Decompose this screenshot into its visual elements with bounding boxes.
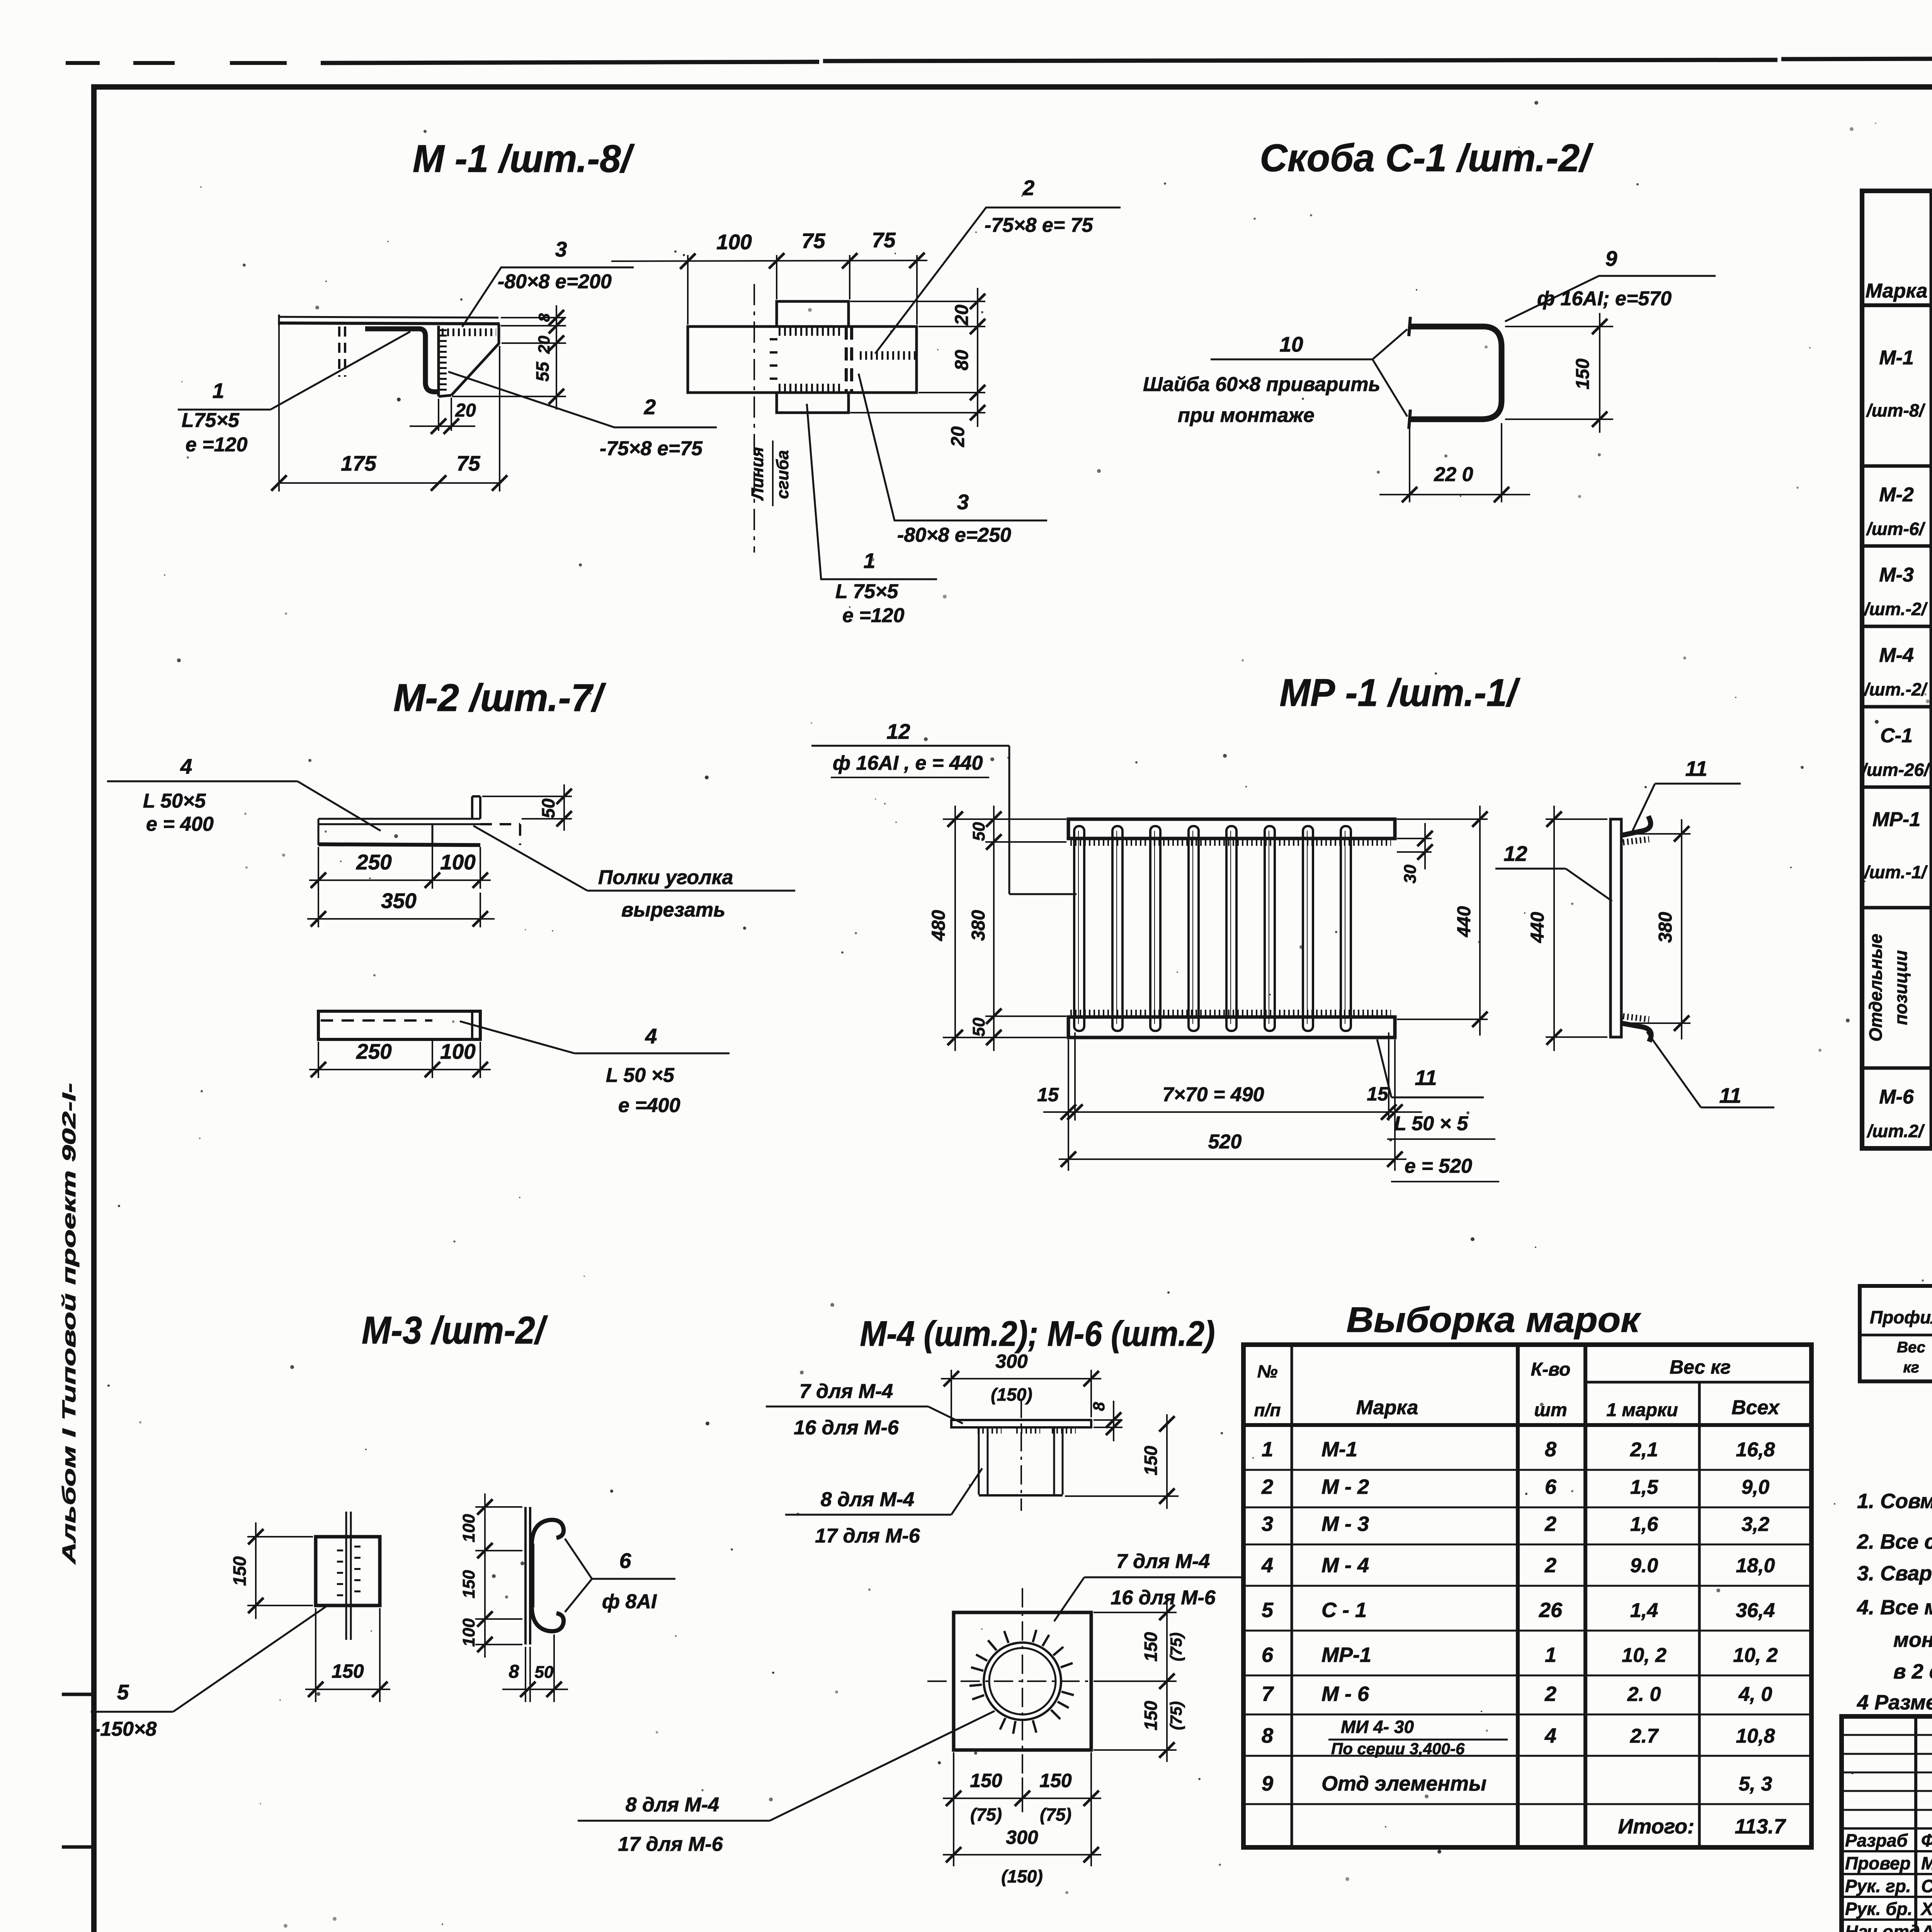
svg-text:9,0: 9,0 <box>1742 1476 1769 1498</box>
svg-text:20: 20 <box>948 426 968 447</box>
M-1 section: plate pos 2 with weld hatch <box>437 326 440 396</box>
M-4 section: weld combs under plate <box>978 1427 1002 1434</box>
svg-text:Рук. бр.: Рук. бр. <box>1845 1899 1913 1919</box>
svg-text:ф 16АI; е=570: ф 16АI; е=570 <box>1537 287 1672 310</box>
svg-text:МР-1: МР-1 <box>1321 1643 1371 1667</box>
svg-text:ф 8АI: ф 8АI <box>602 1590 657 1613</box>
svg-text:(150): (150) <box>991 1384 1032 1405</box>
svg-text:е =400: е =400 <box>618 1094 680 1117</box>
MR-1 grate: bottom band plate <box>1068 1017 1395 1037</box>
marks table outer frame <box>1243 1345 1811 1847</box>
M-1 plan: top dim chain 100/75/75 <box>687 255 689 325</box>
svg-text:вырезать: вырезать <box>621 899 725 921</box>
svg-text:МР -1 /шт.-1/: МР -1 /шт.-1/ <box>1280 671 1521 714</box>
svg-text:36,4: 36,4 <box>1736 1599 1775 1622</box>
svg-text:6: 6 <box>1545 1475 1557 1498</box>
svg-text:9: 9 <box>1262 1772 1273 1795</box>
svg-text:-80×8 е=250: -80×8 е=250 <box>897 524 1011 546</box>
svg-text:8: 8 <box>1545 1438 1556 1461</box>
svg-text:5: 5 <box>1262 1599 1274 1622</box>
M-1 plan: top flange rect <box>777 301 849 327</box>
C-1 dim 220 <box>1409 423 1410 502</box>
svg-text:440: 440 <box>1527 912 1548 943</box>
MR-1 grate: dim 520 <box>1059 1158 1406 1160</box>
M-2 upper: dim 350 <box>480 893 481 927</box>
svg-text:№: № <box>1257 1361 1278 1381</box>
fold tick marks on left frame <box>62 1693 97 1696</box>
svg-text:Полки уголка: Полки уголка <box>598 866 733 889</box>
svg-text:-75×8 е= 75: -75×8 е= 75 <box>985 214 1094 236</box>
MR-1 grate: left dims 480/380/50/50 <box>943 818 1066 820</box>
M-1 plan: leader 3 <box>859 374 1047 520</box>
svg-text:М-4 (шт.2); М-6 (шт.2): М-4 (шт.2); М-6 (шт.2) <box>860 1314 1215 1354</box>
svg-text:9.0: 9.0 <box>1630 1554 1658 1577</box>
M-3 front view: plate 150x8 <box>316 1537 380 1605</box>
scan registration dashes top edge <box>66 61 100 65</box>
M-4 plan: dim 300 (150) bottom <box>943 1854 1101 1855</box>
svg-text:4: 4 <box>1261 1554 1273 1577</box>
M-2 lower: dim chain 250/100 <box>318 1042 319 1078</box>
svg-text:3,2: 3,2 <box>1742 1513 1769 1536</box>
svg-text:250: 250 <box>356 850 392 874</box>
svg-text:150: 150 <box>332 1660 364 1682</box>
svg-text:16 для М-6: 16 для М-6 <box>1111 1587 1216 1609</box>
svg-text:30: 30 <box>1401 864 1420 883</box>
svg-text:1: 1 <box>1545 1643 1556 1667</box>
svg-text:50: 50 <box>969 822 988 841</box>
svg-text:350: 350 <box>381 889 417 913</box>
svg-text:/шт-26/: /шт-26/ <box>1861 760 1930 780</box>
svg-text:Выборка марок: Выборка марок <box>1347 1300 1642 1340</box>
M-4 section: centre axis <box>1020 1399 1022 1511</box>
svg-text:Марка: Марка <box>1356 1396 1418 1419</box>
svg-text:80: 80 <box>952 350 972 371</box>
MR-1 grate: dim 30 right <box>1397 838 1432 839</box>
svg-text:М-1: М-1 <box>1321 1438 1357 1461</box>
M-3 front view: dim 150 bottom <box>315 1608 316 1702</box>
svg-text:12: 12 <box>1503 842 1527 866</box>
svg-text:2: 2 <box>1022 176 1035 200</box>
svg-text:при монтаже: при монтаже <box>1178 404 1315 427</box>
M-3 side view: leader 6 phi8AI <box>565 1539 592 1579</box>
svg-text:М -1 /шт.-8/: М -1 /шт.-8/ <box>413 137 635 180</box>
specification table header <box>1862 303 1932 307</box>
svg-text:/шт.2/: /шт.2/ <box>1866 1121 1925 1141</box>
svg-text:/шт-8/: /шт-8/ <box>1866 400 1925 420</box>
svg-text:Профиль: Профиль <box>1870 1307 1932 1327</box>
M-1 plan: bottom flange rect <box>777 393 849 413</box>
svg-text:12: 12 <box>886 719 910 743</box>
M-3 side view: dims 100/150/100 left <box>475 1506 522 1508</box>
svg-text:3: 3 <box>957 490 969 514</box>
svg-text:шт: шт <box>1534 1400 1567 1420</box>
svg-text:380: 380 <box>1655 912 1676 943</box>
svg-text:е = 520: е = 520 <box>1405 1155 1472 1177</box>
svg-text:3: 3 <box>1262 1512 1273 1536</box>
svg-text:позиции: позиции <box>1891 950 1911 1025</box>
C-1 leader 9 phi16AI e=570 <box>1505 276 1716 321</box>
M-1 plan: leader 1 <box>807 404 937 579</box>
svg-text:(150): (150) <box>1001 1866 1043 1886</box>
svg-text:/шт-6/: /шт-6/ <box>1866 519 1925 539</box>
svg-text:Скоба С-1 /шт.-2/: Скоба С-1 /шт.-2/ <box>1260 136 1594 180</box>
svg-text:L 50 ×5: L 50 ×5 <box>606 1064 675 1087</box>
MR-1 side view: bottom angle cleat <box>1621 1023 1651 1042</box>
svg-text:Вес: Вес <box>1897 1339 1925 1356</box>
svg-text:1,5: 1,5 <box>1630 1476 1658 1498</box>
svg-text:Итого:: Итого: <box>1618 1815 1694 1838</box>
svg-text:С - 1: С - 1 <box>1321 1599 1367 1622</box>
svg-text:Линия: Линия <box>748 447 767 501</box>
M-1 section: leader 3 -80x8 e=200 <box>462 267 634 327</box>
svg-text:150: 150 <box>1141 1701 1161 1730</box>
M-2 upper: dim chain 250/100 <box>318 847 319 927</box>
svg-text:300: 300 <box>995 1350 1028 1372</box>
svg-text:-150×8: -150×8 <box>94 1718 156 1740</box>
M-4 section: dim 150 right <box>1065 1495 1179 1497</box>
svg-text:5: 5 <box>117 1680 129 1704</box>
svg-text:/шт.-1/: /шт.-1/ <box>1864 862 1928 882</box>
M-1 plan: fold axis dash-dot <box>753 284 755 553</box>
svg-text:22 0: 22 0 <box>1434 463 1473 486</box>
svg-text:2: 2 <box>644 395 656 419</box>
svg-text:М-2: М-2 <box>1879 484 1914 506</box>
svg-text:300: 300 <box>1006 1827 1038 1848</box>
svg-text:М - 6: М - 6 <box>1321 1682 1369 1706</box>
M-1 section: bottom dim chain 175/75 <box>278 325 280 492</box>
specification table row lines <box>1862 464 1932 468</box>
svg-text:8: 8 <box>509 1662 519 1682</box>
svg-text:Симиренко: Симиренко <box>1921 1876 1932 1896</box>
C-1 bracket body (phi16 bar bent) <box>1410 327 1502 419</box>
M-2 lower: leader 4 <box>460 1021 575 1053</box>
M-4 plan: dims right 150(75) x2 <box>1094 1612 1177 1613</box>
svg-text:2. Все сварные швы принят: 2. Все сварные швы принять 5мм <box>1857 1530 1932 1553</box>
MR-1 side view: dim 440 left <box>1546 818 1607 820</box>
M-3 front view: weld marks <box>337 1549 343 1600</box>
M-1 section: dim 20 under angle foot <box>438 399 439 431</box>
svg-text:75: 75 <box>872 228 896 252</box>
MR-1 side view: vertical plate <box>1611 819 1621 1037</box>
M-2 upper: leader flange cut note <box>473 826 587 891</box>
svg-text:Феоктистова: Феоктистова <box>1921 1830 1932 1850</box>
svg-text:(75): (75) <box>1167 1701 1185 1730</box>
svg-text:10: 10 <box>1279 332 1303 356</box>
svg-text:Разраб: Разраб <box>1845 1830 1908 1850</box>
svg-text:2.7: 2.7 <box>1630 1725 1659 1747</box>
svg-text:18,0: 18,0 <box>1736 1554 1775 1577</box>
C-1 dim 150 <box>1505 326 1613 327</box>
M-4 plan: square plate <box>954 1612 1091 1750</box>
svg-text:ф 16АI , е = 440: ф 16АI , е = 440 <box>833 752 983 774</box>
svg-text:4 Размеры в скобках даны: 4 Размеры в скобках даны для детали М-6 <box>1857 1691 1932 1714</box>
svg-text:7: 7 <box>1262 1682 1274 1706</box>
svg-text:8 для М-4: 8 для М-4 <box>821 1488 915 1511</box>
svg-text:113.7: 113.7 <box>1735 1815 1786 1838</box>
svg-text:50: 50 <box>535 1663 554 1682</box>
svg-text:8: 8 <box>1262 1724 1273 1747</box>
svg-text:/шт.-2/: /шт.-2/ <box>1864 679 1928 699</box>
svg-text:26: 26 <box>1539 1599 1563 1622</box>
svg-text:монтажных и сварочных работ: монтажных и сварочных работ окрасить эма… <box>1893 1628 1932 1651</box>
svg-text:100: 100 <box>440 850 476 874</box>
svg-text:150: 150 <box>1141 1632 1161 1662</box>
svg-text:К-во: К-во <box>1531 1359 1571 1380</box>
svg-text:7×70 = 490: 7×70 = 490 <box>1162 1083 1264 1106</box>
svg-text:1,4: 1,4 <box>1630 1599 1658 1622</box>
svg-text:е =120: е =120 <box>185 434 248 456</box>
svg-text:150: 150 <box>1039 1770 1072 1791</box>
MR-1 side view: dim 380 right <box>1623 833 1690 835</box>
svg-text:1 марки: 1 марки <box>1606 1400 1678 1420</box>
M-4 plan: pipe circles <box>984 1643 1061 1720</box>
MR-1 grate: 8 round bars <box>1074 826 1084 1031</box>
M-1 section: anchor dashed lines <box>338 327 340 377</box>
svg-text:100: 100 <box>440 1039 476 1063</box>
svg-text:20: 20 <box>535 336 553 354</box>
svg-text:М-3 /шт-2/: М-3 /шт-2/ <box>362 1309 548 1352</box>
svg-text:520: 520 <box>1208 1131 1242 1153</box>
M-2 upper: dim 50 <box>482 796 572 797</box>
svg-text:9: 9 <box>1605 247 1617 270</box>
svg-text:МИ 4- 30: МИ 4- 30 <box>1341 1717 1414 1737</box>
svg-text:100: 100 <box>459 1514 478 1543</box>
svg-text:4: 4 <box>645 1024 657 1048</box>
svg-text:6: 6 <box>619 1549 631 1573</box>
M-1 plan: right dim chain 20/80/20 <box>850 301 985 302</box>
svg-text:L75×5: L75×5 <box>182 409 240 432</box>
svg-text:1: 1 <box>213 379 224 403</box>
svg-text:2: 2 <box>1261 1475 1273 1498</box>
M-2 upper: dashed cut flange <box>480 823 520 825</box>
svg-text:е =120: е =120 <box>842 604 905 627</box>
svg-text:2,1: 2,1 <box>1630 1439 1658 1461</box>
svg-text:сгиба: сгиба <box>773 450 792 499</box>
svg-text:Шайба 60×8 приварить: Шайба 60×8 приварить <box>1143 373 1380 396</box>
MR-1 grate: weld combs at bands <box>1070 839 1391 846</box>
svg-text:в 2 слоя по грунту эмалью: в 2 слоя по грунту эмалью ХС-710 в 3 сло… <box>1893 1660 1932 1683</box>
svg-text:4, 0: 4, 0 <box>1738 1683 1772 1706</box>
svg-text:2. 0: 2. 0 <box>1627 1683 1661 1706</box>
svg-text:кг: кг <box>1903 1359 1919 1376</box>
marks table column lines <box>1291 1345 1293 1847</box>
svg-text:3. Сварку производить элект: 3. Сварку производить электродами типа Э… <box>1857 1562 1932 1585</box>
svg-text:380: 380 <box>968 910 989 941</box>
svg-text:-75×8 е=75: -75×8 е=75 <box>600 437 703 460</box>
M-1 section: leader 1 L75x5 e=120 <box>178 409 270 411</box>
svg-text:17 для М-6: 17 для М-6 <box>815 1525 920 1547</box>
svg-text:150: 150 <box>230 1556 250 1586</box>
M-3 front view: anchor pin through plate <box>345 1512 347 1640</box>
MR-1 grate: bottom dim 15/7x70=490/15 <box>1068 1039 1069 1171</box>
title block signature grid <box>1914 1716 1917 1932</box>
svg-text:6: 6 <box>1262 1643 1274 1667</box>
svg-text:17 для М-6: 17 для М-6 <box>618 1833 723 1855</box>
svg-text:15: 15 <box>1037 1084 1059 1105</box>
svg-text:М - 2: М - 2 <box>1321 1475 1369 1498</box>
svg-text:М-3: М-3 <box>1879 564 1914 586</box>
svg-text:Андрианов: Андрианов <box>1921 1922 1932 1932</box>
svg-text:М - 3: М - 3 <box>1321 1512 1369 1536</box>
svg-text:16,8: 16,8 <box>1736 1439 1775 1461</box>
svg-text:7 для М-4: 7 для М-4 <box>799 1380 893 1403</box>
svg-text:Марка: Марка <box>1866 280 1928 302</box>
svg-text:50: 50 <box>969 1017 988 1036</box>
svg-text:2: 2 <box>1544 1512 1556 1536</box>
svg-text:2: 2 <box>1544 1554 1556 1577</box>
svg-text:440: 440 <box>1454 906 1475 937</box>
svg-text:20: 20 <box>952 304 972 326</box>
M-2 upper: top thin line <box>318 818 480 820</box>
svg-text:3: 3 <box>555 237 567 261</box>
svg-text:100: 100 <box>459 1618 478 1647</box>
svg-text:Отд элементы: Отд элементы <box>1321 1772 1486 1795</box>
M-3 front view: dim 150 left <box>247 1536 313 1537</box>
MR-1 grate: dim 440 right <box>1397 818 1488 820</box>
svg-text:8: 8 <box>1090 1402 1108 1411</box>
svg-text:М-2 /шт.-7/: М-2 /шт.-7/ <box>393 676 606 719</box>
svg-text:п/п: п/п <box>1254 1400 1281 1420</box>
svg-text:11: 11 <box>1685 757 1707 781</box>
svg-text:16 для М-6: 16 для М-6 <box>794 1417 899 1439</box>
M-4 plan: weld tick ring <box>1061 1692 1074 1695</box>
M-3 side view: plate edge <box>524 1507 527 1645</box>
svg-text:150: 150 <box>1141 1446 1161 1475</box>
svg-text:5, 3: 5, 3 <box>1739 1773 1772 1795</box>
svg-text:М-6: М-6 <box>1879 1086 1914 1108</box>
specification table column lines <box>1930 191 1932 1148</box>
svg-text:15: 15 <box>1367 1083 1389 1105</box>
title block outer frame <box>1842 1716 1932 1932</box>
M-2 upper: angle body <box>318 823 480 825</box>
svg-text:8: 8 <box>536 313 553 322</box>
svg-text:L 75×5: L 75×5 <box>835 580 898 603</box>
MR-1 grate: top band plate <box>1068 819 1395 838</box>
M-3 side view: anchor hooks phi8 <box>532 1520 564 1546</box>
svg-text:150: 150 <box>1573 359 1593 389</box>
svg-text:10,8: 10,8 <box>1736 1725 1775 1747</box>
svg-text:150: 150 <box>970 1770 1002 1791</box>
svg-text:Отдельные: Отдельные <box>1866 934 1886 1041</box>
M-1 plan: heavy dashed bend line <box>845 327 848 393</box>
svg-text:4: 4 <box>1544 1724 1556 1747</box>
svg-text:М - 4: М - 4 <box>1321 1554 1369 1577</box>
svg-text:С-1: С-1 <box>1880 724 1913 747</box>
svg-text:М-4: М-4 <box>1879 644 1914 667</box>
M-1 section: angle L75x5 (pos 1) <box>365 329 438 392</box>
M-1 plan: main band plate <box>688 327 917 393</box>
svg-text:480: 480 <box>929 910 949 941</box>
svg-text:2: 2 <box>1544 1682 1556 1706</box>
M-4 section: pipe bottom <box>979 1494 1063 1497</box>
svg-text:Хрусталева: Хрусталева <box>1920 1899 1932 1919</box>
svg-text:1,6: 1,6 <box>1630 1513 1658 1536</box>
M-1 plan: weld combs <box>779 327 842 336</box>
M-2 lower: bar with cut flange <box>318 1011 480 1039</box>
svg-text:10, 2: 10, 2 <box>1622 1644 1667 1667</box>
M-3 side view: dims 8/50 bottom <box>525 1647 526 1702</box>
M-4 plan: crosshair axes <box>927 1680 1117 1682</box>
M-2 upper: vertical tab <box>471 796 473 819</box>
svg-text:По серии 3,400-6: По серии 3,400-6 <box>1331 1740 1465 1758</box>
svg-text:Всех: Всех <box>1731 1396 1780 1419</box>
svg-text:1: 1 <box>1262 1438 1273 1461</box>
M-1 section: top plate (pos 3 -80x8) <box>279 317 498 318</box>
svg-text:М-1: М-1 <box>1879 347 1914 369</box>
svg-text:-80×8 е=200: -80×8 е=200 <box>498 270 612 293</box>
svg-text:75: 75 <box>801 229 826 253</box>
svg-text:Вес кг: Вес кг <box>1670 1356 1731 1378</box>
svg-text:50: 50 <box>538 798 558 818</box>
svg-text:8 для М-4: 8 для М-4 <box>626 1794 719 1816</box>
M-4 section: pipe walls <box>978 1427 980 1495</box>
svg-text:1. Совместно с данным смо: 1. Совместно с данным смотрите листы АР-… <box>1857 1490 1932 1513</box>
M-4 section: plate <box>951 1420 1091 1427</box>
svg-text:(75): (75) <box>1167 1633 1185 1662</box>
svg-text:L 50×5: L 50×5 <box>143 790 206 812</box>
svg-text:20: 20 <box>455 400 476 421</box>
marks table header <box>1243 1423 1811 1427</box>
svg-text:55: 55 <box>532 361 553 382</box>
svg-text:7 для М-4: 7 для М-4 <box>1116 1550 1210 1573</box>
svg-text:4. Все металлические конс: 4. Все металлические конструкции после в… <box>1857 1596 1932 1619</box>
svg-text:Нач.отд: Нач.отд <box>1845 1922 1920 1932</box>
svg-text:МР-1: МР-1 <box>1872 808 1920 831</box>
marks table row lines <box>1243 1469 1811 1471</box>
svg-text:(75): (75) <box>970 1804 1002 1825</box>
M-4 plan: dims bottom 150/150 (75)(75) <box>953 1752 954 1866</box>
svg-text:/шт.-2/: /шт.-2/ <box>1864 599 1928 619</box>
svg-text:11: 11 <box>1415 1066 1437 1090</box>
M-1 plan: leader 2 <box>875 207 1121 354</box>
svg-text:4: 4 <box>180 754 192 778</box>
svg-text:175: 175 <box>341 451 377 475</box>
M-4 section: dim 300 (150) top <box>951 1370 952 1417</box>
specification table outer frame <box>1862 191 1932 1148</box>
svg-text:е = 400: е = 400 <box>146 813 214 835</box>
svg-text:(75): (75) <box>1040 1804 1071 1825</box>
svg-text:250: 250 <box>356 1039 392 1063</box>
M-4 section: dim 8 right <box>1094 1419 1122 1421</box>
M-1 section: leader 2 -75x8 e=75 <box>448 372 717 427</box>
svg-text:Провер: Провер <box>1845 1853 1911 1873</box>
svg-text:150: 150 <box>459 1570 478 1599</box>
svg-text:Альбом I Типовой проект 90: Альбом I Типовой проект 902-I- <box>59 1083 80 1565</box>
svg-text:Мухина: Мухина <box>1921 1853 1932 1873</box>
svg-text:L 50 × 5: L 50 × 5 <box>1394 1112 1468 1135</box>
MR-1 side view: top angle cleat <box>1621 816 1651 835</box>
svg-text:100: 100 <box>716 230 752 254</box>
M-3 front view: leader 5 -150x8 <box>173 1604 329 1712</box>
svg-text:11: 11 <box>1719 1083 1741 1107</box>
svg-text:75: 75 <box>456 451 481 475</box>
svg-text:Рук. гр.: Рук. гр. <box>1845 1876 1911 1896</box>
steel table outer frame <box>1860 1286 1932 1381</box>
svg-text:10, 2: 10, 2 <box>1733 1644 1778 1667</box>
M-1 section: right dim chain 8/20/55 <box>501 317 566 318</box>
